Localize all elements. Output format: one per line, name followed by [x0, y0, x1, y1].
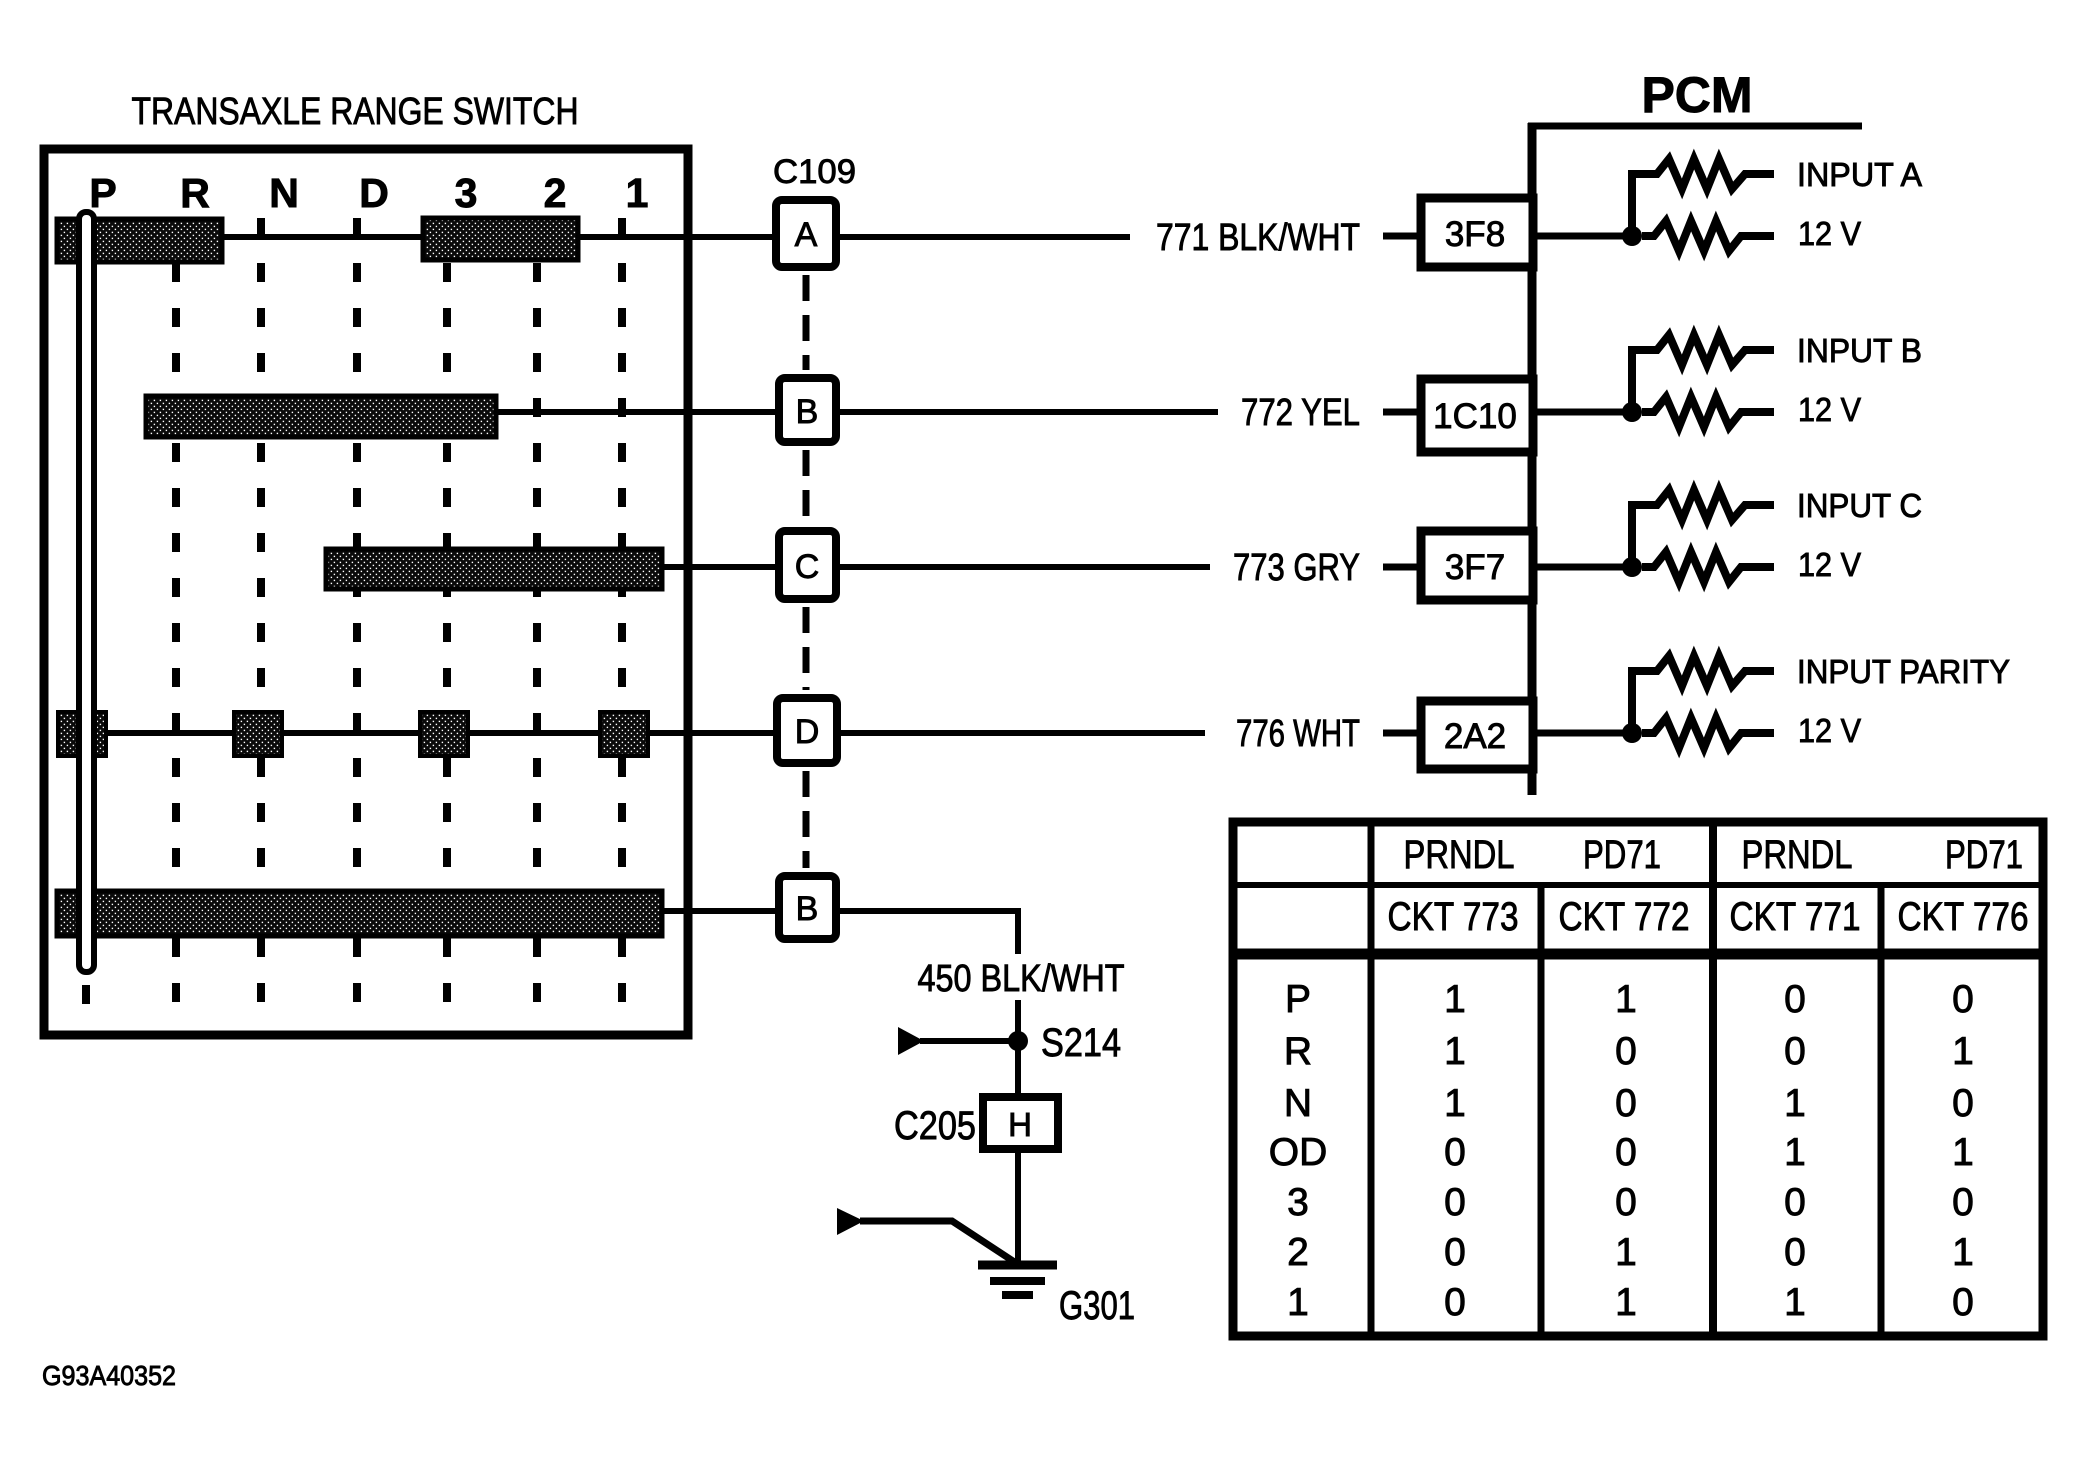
wire splice to connector H	[1015, 1041, 1021, 1096]
resistor pull-up INPUT PARITY	[1632, 656, 1774, 733]
svg-text:0: 0	[1444, 1181, 1466, 1224]
svg-text:C205: C205	[894, 1104, 976, 1148]
wire row A to connector A	[578, 234, 774, 240]
svg-text:0: 0	[1784, 1181, 1806, 1224]
connector C109 pin D	[777, 698, 837, 763]
dashed position line 2	[533, 218, 541, 1022]
svg-text:3F8: 3F8	[1445, 215, 1505, 254]
wire pin 3F7 to node C	[1537, 564, 1632, 571]
svg-text:0: 0	[1444, 1131, 1466, 1174]
wire row B to connector B	[496, 409, 778, 415]
svg-text:1: 1	[1615, 1281, 1637, 1324]
svg-text:G93A40352: G93A40352	[42, 1360, 176, 1391]
table vertical line col4 partial	[1878, 885, 1885, 1336]
svg-text:1: 1	[1952, 1030, 1974, 1073]
dashed position line R	[172, 218, 180, 1022]
dashed position line 1	[618, 218, 626, 1022]
svg-text:1: 1	[1444, 1030, 1466, 1073]
svg-text:INPUT A: INPUT A	[1797, 156, 1922, 193]
table row P	[1285, 978, 1974, 1021]
node B junction dot	[1622, 402, 1642, 422]
svg-text:0: 0	[1784, 978, 1806, 1021]
svg-text:1: 1	[1444, 1082, 1466, 1125]
table row R	[1284, 1030, 1974, 1073]
connector C109 pin B lower	[779, 876, 836, 939]
table row 1	[1287, 1281, 1974, 1324]
svg-text:R: R	[1284, 1030, 1312, 1073]
svg-text:1: 1	[1615, 1231, 1637, 1274]
table row 2	[1287, 1231, 1974, 1274]
wire stub into pin 3F7	[1383, 564, 1419, 571]
wire 771 from pin A	[840, 234, 1130, 240]
svg-text:N: N	[269, 170, 299, 216]
table vertical line col3 full	[1709, 822, 1717, 1336]
PCM pin 3F7	[1421, 531, 1533, 600]
contact pad row D at P	[58, 712, 106, 756]
svg-text:C: C	[795, 548, 820, 586]
svg-text:772 YEL: 772 YEL	[1241, 392, 1360, 434]
svg-text:N: N	[1284, 1082, 1312, 1125]
svg-text:B: B	[796, 890, 819, 928]
svg-text:0: 0	[1444, 1231, 1466, 1274]
wire 772 from pin B	[840, 409, 1218, 415]
table header separator line 2 (thick)	[1229, 949, 2047, 960]
selector slider	[79, 212, 94, 972]
svg-text:0: 0	[1952, 1281, 1974, 1324]
svg-text:3: 3	[455, 170, 478, 216]
dashed connector line C-D	[803, 607, 810, 690]
resistor to 12V row A	[1642, 221, 1774, 251]
svg-text:CKT 772: CKT 772	[1559, 895, 1690, 939]
svg-text:12 V: 12 V	[1798, 712, 1861, 749]
table row 3	[1287, 1181, 1974, 1224]
contact pad row D at 3	[420, 712, 468, 756]
table header separator line 1	[1229, 882, 2047, 888]
svg-text:PD71: PD71	[1583, 833, 1661, 877]
table vertical line col2 partial	[1538, 885, 1545, 1336]
dashed position line 3	[443, 218, 451, 1022]
dashed connector line B-C	[803, 450, 810, 523]
svg-text:B: B	[796, 393, 819, 431]
svg-text:1: 1	[1784, 1281, 1806, 1324]
contact bar row A right (3-2)	[423, 218, 578, 260]
contact bar row A left (P-R)	[57, 219, 222, 262]
dashed connector line A-B	[803, 275, 810, 370]
svg-text:D: D	[359, 170, 389, 216]
svg-text:0: 0	[1615, 1181, 1637, 1224]
splice branch arrow	[898, 1027, 924, 1055]
svg-text:0: 0	[1784, 1231, 1806, 1274]
svg-text:0: 0	[1615, 1131, 1637, 1174]
table vertical line col1 full	[1368, 822, 1375, 1336]
dashed position line P	[82, 985, 90, 1022]
svg-text:0: 0	[1615, 1082, 1637, 1125]
wire 450 lower segment to splice	[1015, 1000, 1021, 1041]
svg-text:PRNDL: PRNDL	[1404, 833, 1515, 877]
PCM pin 3F8	[1421, 198, 1533, 267]
node C junction dot	[1622, 557, 1642, 577]
resistor to 12V row B	[1642, 397, 1774, 427]
svg-text:PD71: PD71	[1945, 833, 2023, 877]
wire from pin B2 with corner down	[839, 911, 1018, 954]
svg-text:12 V: 12 V	[1798, 391, 1861, 428]
svg-text:CKT 773: CKT 773	[1388, 895, 1519, 939]
svg-text:0: 0	[1952, 1181, 1974, 1224]
node D junction dot	[1622, 723, 1642, 743]
connector C109 pin A	[776, 200, 836, 267]
PCM pin 1C10	[1421, 379, 1533, 452]
wire stub into pin 3F8	[1383, 233, 1419, 240]
svg-text:0: 0	[1952, 978, 1974, 1021]
wire pin H to ground	[1015, 1152, 1021, 1261]
svg-text:1C10: 1C10	[1433, 397, 1517, 436]
wire pin 3F8 to node A	[1537, 233, 1632, 240]
svg-text:1: 1	[1615, 978, 1637, 1021]
svg-text:0: 0	[1952, 1082, 1974, 1125]
svg-text:450 BLK/WHT: 450 BLK/WHT	[918, 958, 1125, 1000]
wire stub into pin 1C10	[1383, 409, 1419, 416]
wire 773 from pin C	[840, 564, 1210, 570]
svg-text:3: 3	[1287, 1181, 1309, 1224]
svg-text:0: 0	[1784, 1030, 1806, 1073]
svg-text:CKT 771: CKT 771	[1730, 895, 1861, 939]
contact pad row D at 1	[600, 712, 648, 756]
wire pin 1C10 to node B	[1537, 409, 1632, 416]
node A junction dot	[1622, 226, 1642, 246]
svg-text:3F7: 3F7	[1445, 548, 1505, 587]
svg-text:0: 0	[1615, 1030, 1637, 1073]
svg-text:1: 1	[1952, 1131, 1974, 1174]
wire row C to connector C	[662, 564, 778, 570]
svg-text:2A2: 2A2	[1444, 717, 1506, 756]
svg-text:0: 0	[1444, 1281, 1466, 1324]
contact bar row C (D-3-2)	[326, 549, 662, 589]
svg-text:H: H	[1008, 1106, 1032, 1143]
connector C109 pin B	[779, 378, 836, 442]
svg-text:1: 1	[626, 170, 649, 216]
svg-text:S214: S214	[1041, 1021, 1121, 1065]
svg-text:773 GRY: 773 GRY	[1233, 547, 1360, 589]
ground branch wire with diagonal	[860, 1221, 1016, 1263]
svg-text:1: 1	[1784, 1131, 1806, 1174]
svg-text:1: 1	[1952, 1231, 1974, 1274]
wire row B2 to connector B2	[662, 908, 777, 914]
svg-text:776 WHT: 776 WHT	[1236, 713, 1360, 755]
wire row D through pads to connector D	[106, 730, 234, 736]
dashed position line D	[353, 218, 361, 1022]
wire pin 2A2 to node D	[1537, 730, 1632, 737]
svg-text:12 V: 12 V	[1798, 215, 1861, 252]
svg-text:P: P	[89, 170, 116, 216]
resistor pull-up INPUT A	[1632, 159, 1774, 236]
dashed connector line D-B2	[803, 771, 810, 868]
PCM top boundary line	[1528, 123, 1862, 130]
svg-text:TRANSAXLE RANGE SWITCH: TRANSAXLE RANGE SWITCH	[132, 91, 579, 133]
table row N	[1284, 1082, 1974, 1125]
svg-text:C109: C109	[773, 153, 856, 191]
resistor to 12V row C	[1642, 552, 1774, 582]
svg-text:2: 2	[1287, 1231, 1309, 1274]
svg-text:D: D	[795, 713, 820, 751]
wire row A between bars	[222, 234, 423, 240]
resistor to 12V row D	[1642, 718, 1774, 748]
svg-text:1: 1	[1784, 1082, 1806, 1125]
wire stub into pin 2A2	[1383, 730, 1419, 737]
PCM left bus line	[1528, 123, 1537, 795]
svg-text:771 BLK/WHT: 771 BLK/WHT	[1156, 217, 1360, 259]
table row OD	[1269, 1131, 1974, 1174]
svg-text:PRNDL: PRNDL	[1742, 833, 1853, 877]
resistor pull-up INPUT C	[1632, 490, 1774, 567]
svg-text:2: 2	[544, 170, 567, 216]
ground branch arrow	[837, 1208, 864, 1235]
contact bar row B (R-N-D)	[146, 396, 496, 437]
wire 776 from pin D	[840, 730, 1205, 736]
contact pad row D at N	[234, 712, 282, 756]
splice branch wire	[920, 1038, 1018, 1044]
svg-text:INPUT B: INPUT B	[1797, 332, 1922, 369]
svg-text:12 V: 12 V	[1798, 546, 1861, 583]
svg-text:CKT 776: CKT 776	[1898, 895, 2029, 939]
svg-text:R: R	[180, 170, 210, 216]
contact bar row B2 (all positions)	[57, 891, 662, 936]
splice S214 junction dot	[1008, 1031, 1028, 1051]
resistor pull-up INPUT B	[1632, 335, 1774, 412]
connector C205 pin H	[983, 1097, 1058, 1149]
svg-text:OD: OD	[1269, 1131, 1328, 1174]
svg-text:P: P	[1285, 978, 1311, 1021]
PCM pin 2A2	[1421, 701, 1533, 769]
dashed position line N	[257, 218, 265, 1022]
svg-text:PCM: PCM	[1641, 67, 1752, 123]
connector C109 pin C	[779, 531, 836, 599]
transaxle range switch S1 enclosure	[44, 149, 688, 1035]
svg-text:A: A	[795, 216, 818, 254]
truth table border	[1233, 822, 2043, 1336]
svg-text:INPUT C: INPUT C	[1797, 487, 1922, 524]
ground G301 symbol	[978, 1265, 1057, 1295]
svg-text:1: 1	[1444, 978, 1466, 1021]
svg-text:INPUT PARITY: INPUT PARITY	[1797, 653, 2010, 690]
svg-text:G301: G301	[1059, 1284, 1135, 1328]
svg-text:1: 1	[1287, 1281, 1309, 1324]
